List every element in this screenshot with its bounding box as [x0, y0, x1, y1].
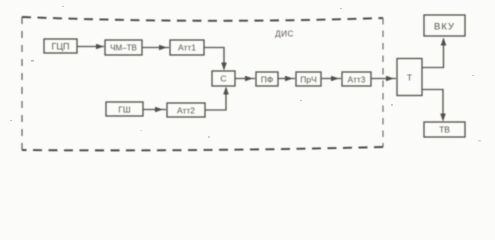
svg-text:С: С — [220, 74, 226, 84]
svg-text:ТВ: ТВ — [439, 125, 450, 135]
wire ЧМ-ТВ to Атт1 — [142, 45, 169, 51]
svg-text:Атт1: Атт1 — [178, 43, 196, 53]
wire С to ПФ — [235, 76, 255, 82]
block С combiner — [212, 71, 235, 86]
block ГЦП — [44, 39, 77, 53]
block ГШ — [106, 102, 143, 116]
wire ГЦП to ЧМ-ТВ — [77, 44, 104, 50]
block Т — [397, 59, 422, 96]
block ПрЧ — [296, 72, 321, 86]
wire ПрЧ to Атт3 — [321, 76, 341, 82]
svg-text:ПФ: ПФ — [261, 75, 274, 85]
block ТВ — [424, 122, 465, 137]
block ВКУ — [424, 15, 465, 36]
svg-text:ВКУ: ВКУ — [434, 22, 455, 33]
enclosure ДИС dashed boundary — [22, 17, 383, 150]
label ДИС — [275, 30, 294, 39]
wire ПФ to ПрЧ — [278, 76, 295, 82]
block ЧМ-ТВ — [105, 40, 142, 55]
block Атт1 — [170, 40, 204, 55]
svg-text:Атт2: Атт2 — [177, 106, 195, 116]
svg-text:ДИС: ДИС — [275, 30, 294, 39]
svg-text:ПрЧ: ПрЧ — [300, 75, 317, 85]
block Атт2 — [167, 103, 205, 117]
wire Т to ВКУ — [422, 38, 446, 68]
svg-text:ЧМ–ТВ: ЧМ–ТВ — [110, 44, 137, 53]
wire Атт2 to С — [205, 87, 229, 111]
svg-text:Т: Т — [407, 73, 412, 83]
wire Атт1 to С — [204, 48, 227, 71]
block ПФ — [256, 72, 278, 86]
svg-text:ГЦП: ГЦП — [52, 42, 70, 52]
svg-text:ГШ: ГШ — [118, 105, 131, 115]
wire Т to ТВ — [422, 90, 446, 122]
wire ГШ to Атт2 — [143, 107, 166, 113]
svg-text:Атт3: Атт3 — [348, 75, 366, 85]
block Атт3 — [342, 72, 371, 86]
wire Атт3 to Т — [371, 76, 396, 82]
